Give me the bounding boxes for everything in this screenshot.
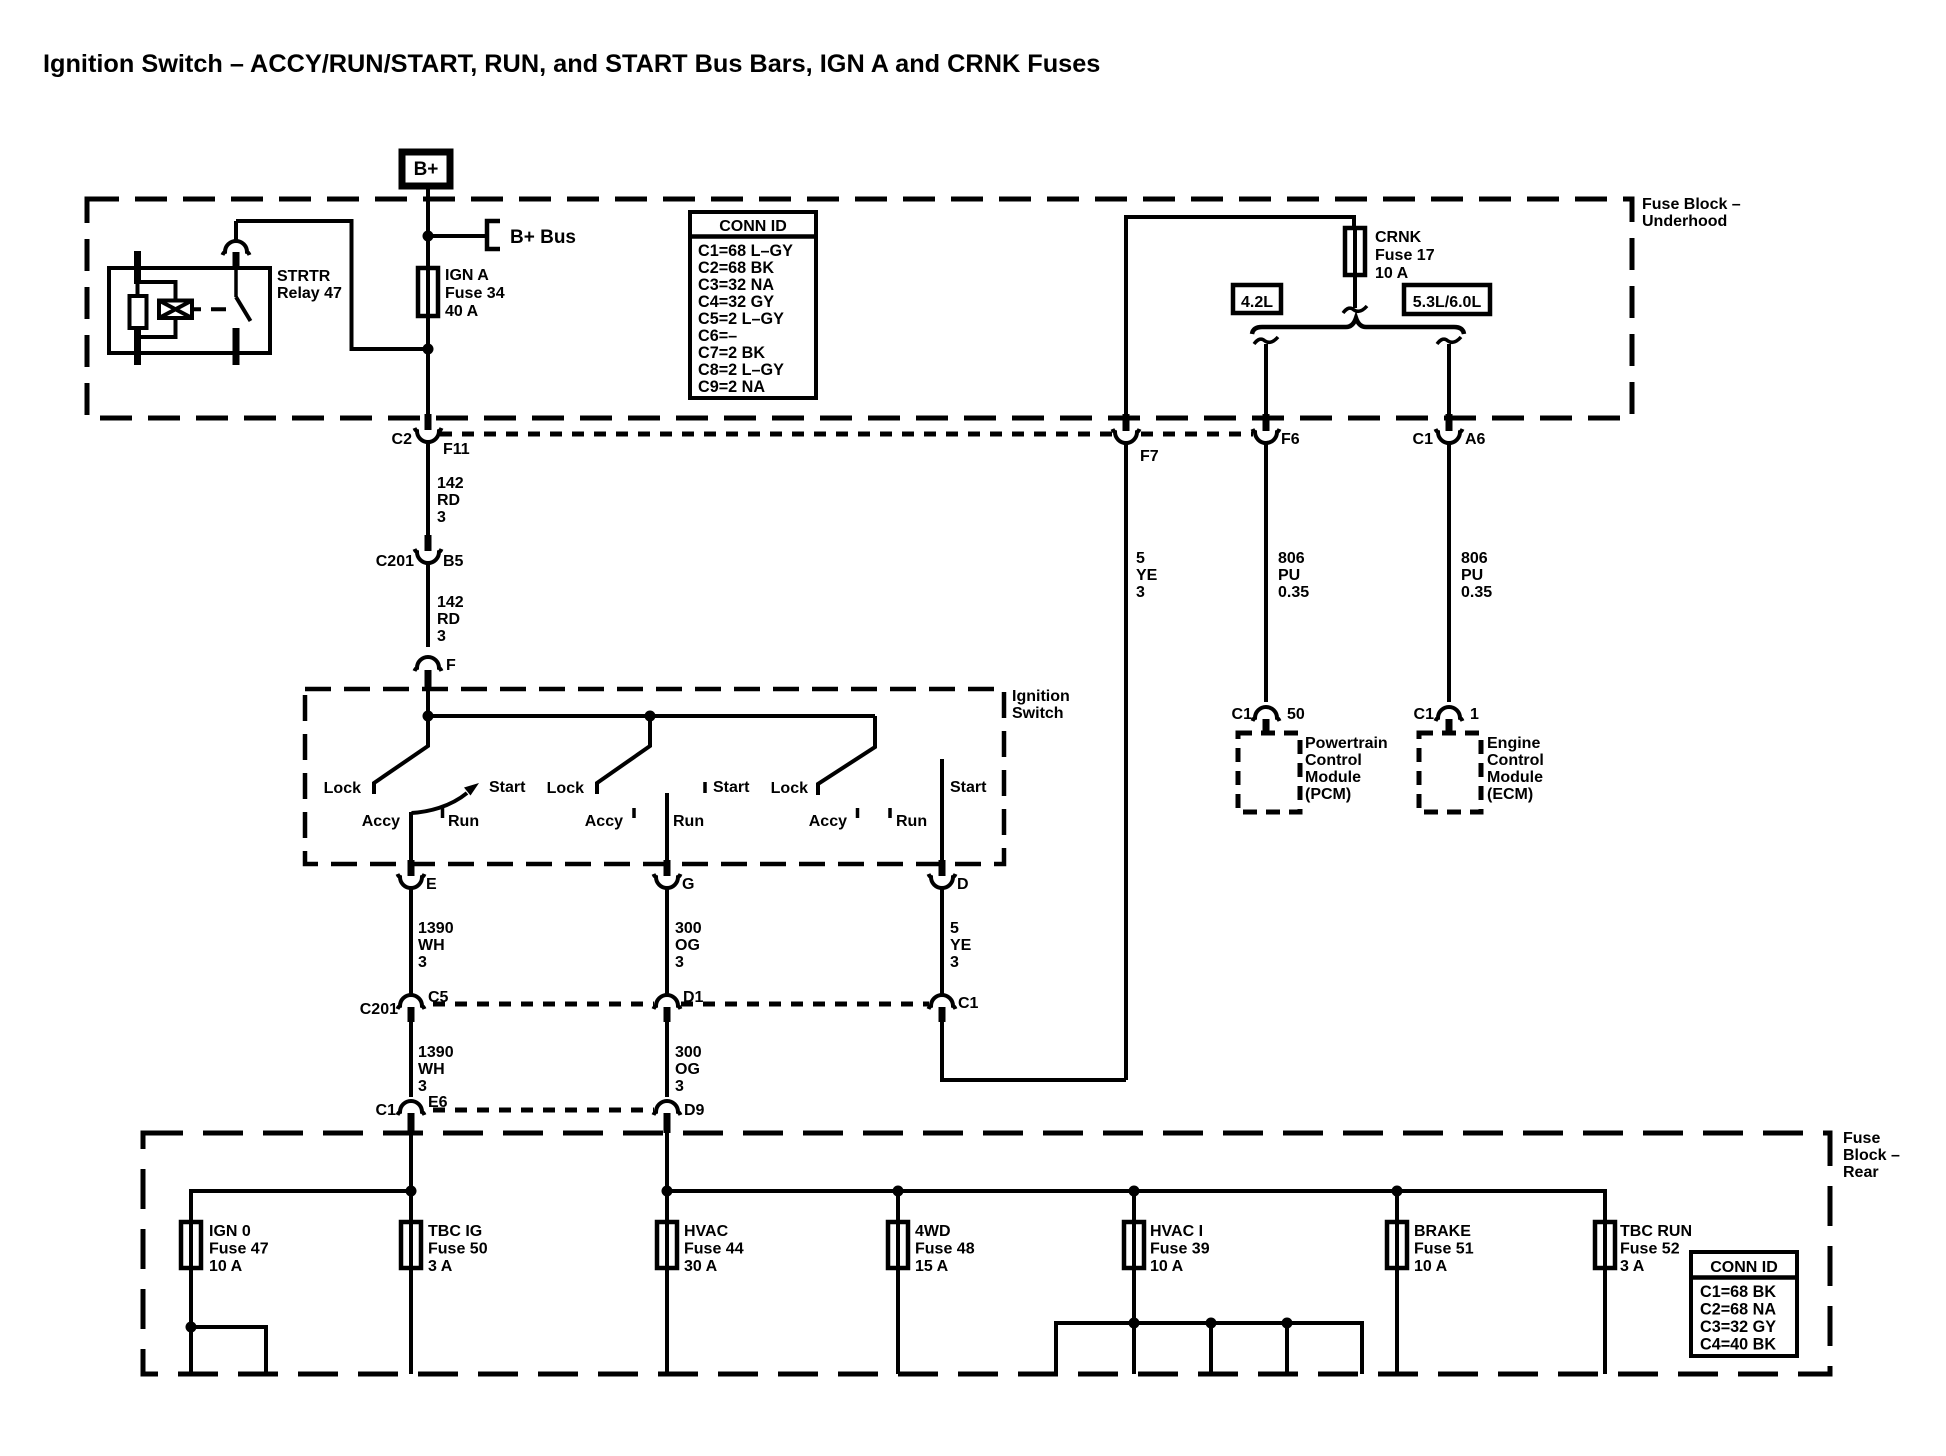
relay solenoid X-box (159, 301, 192, 319)
dotted connector line C2 to F6 (440, 432, 1253, 437)
switch1 armature (374, 716, 428, 794)
svg-text:1: 1 (1470, 706, 1479, 723)
fuse HVAC Fuse 44 (657, 1220, 677, 1270)
svg-text:A6: A6 (1465, 431, 1486, 448)
wire E6 into rear box (409, 1131, 413, 1191)
svg-text:D: D (957, 876, 969, 893)
connector E (398, 860, 425, 888)
relay STRTR Relay 47 box (109, 268, 270, 353)
relay coil pin bottom (134, 328, 141, 365)
svg-text:Run: Run (896, 813, 927, 830)
svg-text:50: 50 (1287, 706, 1305, 723)
connector C1/A6 (1436, 414, 1463, 443)
switch3 Start output wire to D (940, 759, 944, 862)
fuse CRNK Fuse 17 (1345, 226, 1365, 277)
connector F (415, 657, 442, 690)
wire TBC IG output (409, 1268, 413, 1374)
wire 4.2L branch down to F6 (1264, 344, 1268, 416)
svg-text:IgnitionSwitch: IgnitionSwitch (1012, 688, 1070, 722)
connector D1 (654, 995, 681, 1022)
svg-text:Lock: Lock (324, 780, 361, 797)
svg-text:C1: C1 (1232, 706, 1253, 723)
wire comb drop mid1 (1209, 1323, 1213, 1374)
svg-text:E6: E6 (428, 1094, 448, 1111)
wire E to C5 (409, 888, 413, 996)
fuse block rear dashed box (143, 1133, 1830, 1374)
fuse HVAC I Fuse 39 (1124, 1220, 1144, 1270)
svg-text:5.3L/6.0L: 5.3L/6.0L (1413, 294, 1482, 311)
wire TBC IG drop (409, 1191, 413, 1222)
svg-text:C1: C1 (376, 1102, 397, 1119)
relay coil pin top (134, 251, 141, 284)
svg-text:Start: Start (950, 779, 987, 796)
wire HVAC I output (1132, 1268, 1136, 1374)
relay switch armature (236, 297, 251, 321)
switch2 Start contact tick (703, 782, 707, 793)
wire D to C1 (940, 888, 944, 996)
CONN ID table underhood (690, 212, 816, 398)
svg-text:F6: F6 (1281, 431, 1300, 448)
break symbol right branch 5.3L/6.0L (1437, 337, 1461, 344)
switch2 Run output wire to G (665, 793, 669, 862)
4.2L box (1233, 285, 1281, 313)
switch1 Accy output wire to E (409, 812, 413, 862)
svg-text:CONN ID: CONN ID (1710, 1259, 1778, 1276)
junction B+ bus (423, 231, 434, 242)
connector D (929, 860, 956, 888)
svg-text:Start: Start (489, 779, 526, 796)
ignition switch dashed box (305, 689, 1004, 864)
svg-text:B+ Bus: B+ Bus (510, 227, 576, 248)
connector F7 (1113, 414, 1140, 443)
wire F6 to PCM (1264, 443, 1268, 702)
wire F into ignition switch (426, 690, 430, 716)
wire G to D1 (665, 888, 669, 996)
svg-text:B5: B5 (443, 553, 464, 570)
connector C1/50 PCM (1253, 707, 1280, 734)
wire C2 to C201 (426, 442, 430, 536)
switch3 armature (818, 716, 875, 795)
junction rear left bus TBC IG (406, 1186, 417, 1197)
switch1 arrow head (464, 783, 479, 796)
connector D9 (654, 1101, 681, 1133)
junction ignition bus middle (645, 711, 656, 722)
switch3 Accy contact tick (856, 808, 860, 818)
junction comb mid1 (1206, 1318, 1217, 1329)
wire BRAKE drop (1395, 1191, 1399, 1222)
svg-text:Run: Run (448, 813, 479, 830)
switch1 rotation arrow curve (412, 793, 468, 813)
connector C2/F11 (415, 414, 442, 442)
rear right bus (667, 1191, 1605, 1223)
wire HVAC drop (665, 1191, 669, 1222)
wire CRNK fuse to break (1353, 275, 1357, 308)
fuse IGN A Fuse 34 (418, 266, 438, 318)
junction comb mid2 (1282, 1318, 1293, 1329)
wire D1 to D9 (665, 1022, 669, 1097)
svg-text:C1=68 BKC2=68 NAC3=32 GYC4=40: C1=68 BKC2=68 NAC3=32 GYC4=40 BK (1700, 1283, 1776, 1354)
rear left bus (191, 1191, 411, 1222)
relay coil loop wires (138, 282, 176, 337)
switch3 Run contact tick (888, 808, 892, 818)
wire B5 to F (426, 563, 430, 647)
PCM dashed box (1238, 733, 1300, 812)
svg-text:F: F (446, 657, 456, 674)
ignition switch bus bar (428, 714, 875, 718)
switch1 Run contact tick (441, 808, 445, 818)
svg-text:F11: F11 (443, 441, 470, 458)
svg-text:Lock: Lock (547, 780, 584, 797)
B+ Bus bracket (487, 221, 500, 249)
wire D9 into rear box (665, 1131, 669, 1191)
wire relay switch to top (234, 221, 238, 243)
wire C5 to E6 (409, 1022, 413, 1097)
junction comb HVAC I (1129, 1318, 1140, 1329)
relay switch pin bottom (233, 328, 240, 365)
wire HVAC output (665, 1268, 669, 1374)
svg-text:Accy: Accy (809, 813, 847, 830)
switch2 Accy contact tick (632, 808, 636, 818)
relay switch connector arc (223, 241, 250, 266)
svg-text:C2: C2 (392, 431, 413, 448)
5.3L/6.0L box (1404, 285, 1490, 314)
wire 4WD output (896, 1268, 900, 1374)
junction relay wire at IGN A (423, 344, 434, 355)
svg-text:E: E (426, 876, 437, 893)
brace splitting CRNK feed (1252, 318, 1464, 334)
junction ignition bus left (423, 711, 434, 722)
wire BRAKE output (1395, 1268, 1399, 1374)
svg-text:Fuse Block –Underhood: Fuse Block –Underhood (1642, 196, 1741, 230)
wire 4WD drop (896, 1191, 900, 1222)
svg-text:Accy: Accy (362, 813, 400, 830)
connector C201/C5 (398, 995, 425, 1022)
wire B+ down to C2 (426, 189, 430, 416)
svg-text:Start: Start (713, 779, 750, 796)
fuse 4WD Fuse 48 (888, 1220, 908, 1270)
svg-text:CONN ID: CONN ID (719, 218, 787, 235)
wire TBC RUN output (1603, 1268, 1607, 1374)
svg-text:G: G (682, 876, 694, 893)
wire to B+ Bus bracket (428, 234, 486, 238)
switch2 armature (597, 716, 650, 794)
dotted connector line C5 to C1 (433, 1002, 929, 1007)
wire IGN 0 output (189, 1268, 193, 1374)
fuse block underhood dashed box (87, 199, 1632, 418)
svg-text:F7: F7 (1140, 448, 1159, 465)
CONN ID table rear (1691, 1252, 1797, 1356)
wire C1 to F7 elbow (942, 1022, 1126, 1080)
connector C1/1 ECM (1436, 707, 1463, 734)
junction rear bus 4WD (893, 1186, 904, 1197)
svg-text:C1: C1 (958, 995, 979, 1012)
wire A6 to ECM (1447, 443, 1451, 702)
wire 5.3L/6.0L branch down to A6 (1447, 344, 1451, 416)
fuse TBC RUN Fuse 52 (1595, 1220, 1615, 1270)
svg-text:C201: C201 (360, 1001, 398, 1018)
break symbol below CRNK fuse (1343, 306, 1367, 313)
svg-text:D9: D9 (684, 1102, 705, 1119)
fuse IGN 0 Fuse 47 (181, 1220, 201, 1270)
relay switch fixed contact wire (234, 266, 238, 297)
svg-text:B+: B+ (414, 159, 439, 180)
wire F7 down long (1124, 443, 1128, 1080)
relay mechanical link dashes (192, 307, 226, 311)
svg-text:C1: C1 (1414, 706, 1435, 723)
HVAC I comb bus (1056, 1323, 1362, 1374)
connector C201/B5 (415, 535, 442, 563)
connector C1/E6 (398, 1101, 425, 1133)
connector C1 at D column (929, 995, 956, 1022)
svg-text:4.2L: 4.2L (1241, 294, 1273, 311)
B+ terminal box (402, 152, 450, 186)
break symbol left branch 4.2L (1254, 337, 1278, 344)
svg-text:C5: C5 (428, 989, 449, 1006)
svg-text:Ignition Switch – ACCY/RUN/STA: Ignition Switch – ACCY/RUN/START, RUN, a… (43, 50, 1100, 78)
wire F7 column to CRNK fuse (1126, 217, 1354, 415)
fuse TBC IG Fuse 50 (401, 1220, 421, 1270)
fuse BRAKE Fuse 51 (1387, 1220, 1407, 1270)
svg-text:Accy: Accy (585, 813, 623, 830)
connector F6 (1253, 414, 1280, 443)
relay coil element (130, 296, 147, 328)
wire relay to IGN A junction (236, 221, 428, 349)
junction rear bus HVAC (662, 1186, 673, 1197)
svg-text:C201: C201 (376, 553, 414, 570)
junction rear bus BRAKE (1392, 1186, 1403, 1197)
svg-text:Run: Run (673, 813, 704, 830)
svg-text:C1: C1 (1413, 431, 1434, 448)
dotted connector line E6 to D9 (433, 1108, 654, 1113)
junction rear bus HVAC I (1129, 1186, 1140, 1197)
svg-text:D1: D1 (683, 989, 704, 1006)
connector G (654, 860, 681, 888)
ECM dashed box (1419, 733, 1481, 812)
junction IGN 0 branch (186, 1322, 197, 1333)
wire IGN 0 branch L (191, 1327, 266, 1374)
wire comb drop mid2 (1285, 1323, 1289, 1374)
svg-text:Lock: Lock (771, 780, 808, 797)
wire HVAC I drop (1132, 1191, 1136, 1222)
